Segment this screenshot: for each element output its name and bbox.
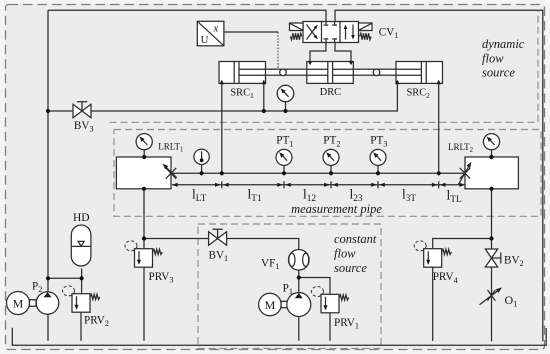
cylinder SRC1 [219,62,266,84]
CV1 left spring [290,33,302,39]
flow meter LRLT1 box [116,157,171,189]
flow meter VF1 [289,249,310,270]
wire CV1 port B to right tank line [335,10,543,341]
SRC2 right port arrow [437,80,441,85]
junction gauge G1 to bus [283,109,287,113]
CV1 right solenoid [359,23,373,31]
wire PRV4 exit to tank bus [432,267,434,341]
CV1 left solenoid [290,23,304,31]
junction PT1 on pipe [282,171,286,175]
wire BV2 to O1 to tank bus [491,267,493,341]
wire PRV3 exit to tank bus [143,267,145,341]
svg-text:U: U [201,34,209,46]
svg-text:measurement pipe: measurement pipe [291,202,382,216]
svg-text:constant: constant [334,232,377,246]
svg-text:M: M [13,297,24,311]
junction SRC2 line on pipe [437,171,441,175]
wire PT3 stem [377,165,379,173]
junction T1 on pipe [200,171,204,175]
ball valve BV1 [209,232,218,245]
pressure gauge PT3 [370,149,386,165]
valve CV1 body [303,22,359,43]
svg-text:source: source [334,261,367,275]
junction SRC1 right to bus [262,109,266,113]
svg-text:flow: flow [482,51,504,65]
pressure gauge G1 [277,85,294,102]
relief valve PRV4 [424,249,442,268]
wire bus BV3 to SRC2 left port [48,83,397,111]
motor M1 [259,293,282,316]
wire VF1 to P1 pump [298,270,300,293]
svg-text:HD: HD [73,212,90,224]
accumulator HD [71,225,91,266]
wire P2 pump to tank bus [47,314,49,341]
piston rod [237,69,422,75]
rod joint circle 1 [280,69,287,76]
wire position sensor dotted link to rod joint [277,32,279,69]
wire SRC2 right port down to pipe [438,83,440,173]
wire left vertical from top to pump P2 [47,10,49,292]
SRC1 right port arrow [262,80,266,85]
wire LRLT1 gauge stem [143,150,145,157]
LRLT1 restrictor [166,168,176,179]
wire SRC1 left port down to pipe [221,83,223,173]
wire PRV4 entry [433,239,492,249]
wire junction to PRV1 entry [299,278,330,295]
rod joint circle 2 [373,69,380,76]
junction HD bottom [80,276,84,280]
shaft coupling M1-P1 [281,301,287,307]
relief valve PRV2 [72,294,90,313]
tank vessel [12,328,546,346]
relief valve PRV1 [321,294,339,313]
wire PRV3 entry [143,239,145,249]
ball valve BV3 [73,104,82,117]
pipe dimension line with arrows [172,184,465,186]
svg-text:flow: flow [334,247,356,261]
junction LRLT1 gauge [142,155,146,159]
pressure gauge PT1 [276,149,292,165]
junction BV2 branch [489,236,493,240]
svg-text:x: x [213,24,219,35]
wire PRV2 entry [81,278,83,293]
wire CV1 bottom-left to DRC left port [310,43,326,63]
svg-text:DRC: DRC [320,87,341,98]
sensor box U1 (x->U) [197,21,224,46]
ball valve BV2 [485,249,497,258]
wire top supply to CV1 port A [48,10,326,21]
wire T1 thermometer stem [201,165,203,174]
DRC left port arrow [308,61,312,65]
junction LRLT2 gauge [489,155,493,159]
wire gauge G1 stem [285,102,287,111]
junction SRC1 line on pipe [220,171,224,175]
pump P2 [36,292,59,315]
svg-text:dynamic: dynamic [482,37,525,51]
shaft coupling M2-P2 [30,300,37,306]
motor M2 [7,292,30,315]
cylinder DRC [307,62,354,84]
junction LRLT2 bottom [489,187,493,191]
LRLT2 restrictor [460,168,470,179]
pump P1 [287,293,311,317]
measurement pipe box (dashed) [114,130,541,217]
wire measurement pipe [171,172,465,174]
LRLT1 gauge [136,134,152,150]
junction BV3 branch [46,109,50,113]
wire HD branch [48,269,82,279]
wire U-box output [224,31,278,33]
relief valve PRV3 [135,249,153,268]
junction LRLT1 bottom [142,187,146,191]
constant flow source box (dashed) [198,224,381,349]
LRLT2 gauge [483,134,499,150]
CV1 right spring [360,33,372,39]
variable orifice O1 [488,290,496,301]
wire PRV1 exit to tank bus [329,313,331,341]
wire LRLT1 bottom to BV1 junction [143,189,145,239]
junction P1 branch [297,275,301,279]
wire PT2 stem [330,165,332,173]
svg-text:source: source [482,65,515,79]
cylinder SRC2 [396,62,443,84]
SRC2 left port arrow [395,80,399,85]
wire CV1 bottom-right to DRC right port [335,43,351,63]
thermometer T1 [194,149,209,164]
SRC1 left port arrow [220,80,224,85]
wire PRV2 exit to tank bus [80,312,82,341]
wire LRLT2 bottom to BV2 junction [491,189,493,249]
junction PT3 on pipe [376,171,380,175]
pressure gauge PT2 [323,149,339,165]
junction PT2 on pipe [329,171,333,175]
DRC right port arrow [349,61,353,65]
junction P2 branch [46,276,50,280]
wire PT1 stem [283,165,285,173]
wire BV1 line to VF1 [144,239,299,250]
wire LRLT2 gauge stem [491,150,493,157]
wire P1 pump to tank bus [298,316,300,341]
svg-text:M: M [265,298,276,312]
wire SRC1 right port to bus [263,83,265,111]
junction PRV3 branch [142,236,146,240]
flow meter LRLT2 box [465,157,518,189]
dynamic flow source box (dashed, bottom+right edges) [110,11,539,123]
